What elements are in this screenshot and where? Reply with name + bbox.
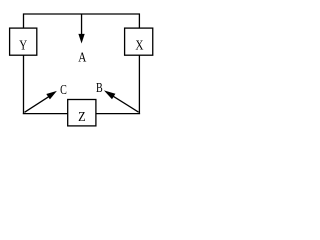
wire Y down to bottom bus — [23, 55, 25, 113]
wire bottom bus right segment — [96, 113, 140, 115]
svg-text:Y: Y — [19, 37, 27, 53]
svg-text:Z: Z — [78, 108, 86, 124]
arrow B shaft (from bottom-right corner up-left) — [113, 96, 139, 112]
wire top bus from Y up across to X — [24, 14, 140, 28]
arrowhead C (up-right) — [46, 91, 57, 100]
wire bottom bus left segment — [23, 113, 68, 115]
arrow C shaft (from bottom-left corner up-right) — [25, 96, 50, 112]
svg-text:B: B — [96, 79, 103, 95]
box X — [125, 28, 153, 55]
box Y — [10, 28, 37, 55]
svg-text:C: C — [60, 82, 67, 98]
wire X down to bottom bus — [138, 55, 140, 113]
svg-text:X: X — [135, 37, 143, 52]
arrowhead B (up-left) — [104, 90, 116, 99]
wire stem of arrow A — [81, 14, 83, 35]
svg-text:A: A — [78, 49, 87, 64]
arrowhead A (down) — [78, 34, 84, 44]
box Z — [68, 100, 96, 126]
